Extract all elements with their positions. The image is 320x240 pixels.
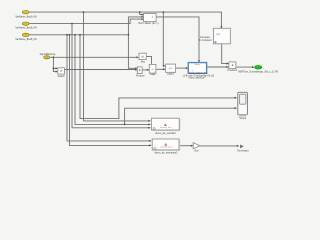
svg-text:SignalWarning: SignalWarning [40, 53, 56, 56]
svg-text:Norm Meter (dc->): Norm Meter (dc->) [138, 22, 158, 25]
svg-text:VarName_Bus8_NV: VarName_Bus8_NV [15, 38, 37, 41]
svg-text:Not: Not [194, 149, 198, 152]
svg-text:Compare: Compare [200, 36, 211, 39]
svg-text:_simulink_func_: _simulink_func_ [158, 147, 174, 149]
svg-text:Scope: Scope [239, 118, 247, 120]
svg-text:Logic1: Logic1 [167, 74, 175, 76]
svg-text:micro_startGcl7: micro_startGcl7 [188, 77, 206, 80]
svg-text:Switch: Switch [58, 75, 66, 78]
svg-text:Product: Product [136, 74, 145, 77]
svg-text:_simulink_func_: _simulink_func_ [158, 127, 174, 129]
svg-text:demo_de_restraint: demo_de_restraint [155, 132, 176, 135]
svg-text:fn: fn [192, 70, 194, 72]
svg-text:demo_de_restraints2: demo_de_restraints2 [154, 152, 178, 155]
svg-text:Product1: Product1 [227, 69, 237, 72]
svg-text:Status: Status [194, 63, 200, 66]
svg-text:Logic: Logic [150, 74, 157, 76]
svg-text:|u|: |u| [141, 56, 144, 59]
svg-text:To Constant: To Constant [198, 39, 211, 42]
svg-text:<=: <= [216, 33, 220, 37]
svg-text:MDFGen_Somedesign_Std_x_0_NV: MDFGen_Somedesign_Std_x_0_NV [238, 71, 278, 74]
svg-text:Terminator: Terminator [237, 150, 249, 153]
svg-text:AND: AND [168, 67, 173, 70]
svg-text:VarName_Bus5_NV: VarName_Bus5_NV [15, 27, 37, 30]
svg-text:VarName_Bus0_NV: VarName_Bus0_NV [15, 15, 37, 18]
